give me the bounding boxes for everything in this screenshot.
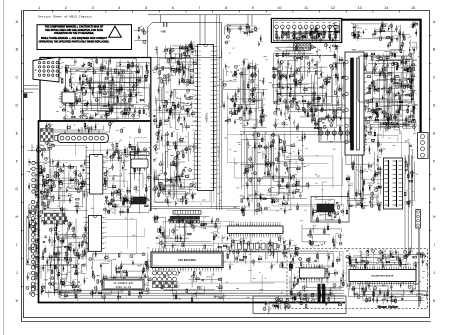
transistor Q301 bbox=[36, 147, 41, 152]
CRT board connector bbox=[294, 43, 312, 50]
audio output components cluster bbox=[89, 250, 152, 302]
AV jack connector J301 bbox=[55, 128, 109, 142]
svg-text:5: 5 bbox=[145, 6, 147, 10]
shield pattern block 2 bbox=[44, 213, 64, 224]
svg-text:A: A bbox=[35, 68, 37, 72]
svg-text:C: C bbox=[433, 76, 436, 80]
scan page edge line bbox=[2, 0, 4, 335]
grid column numbers bbox=[38, 6, 415, 12]
shield outline around IF/PLL bbox=[148, 23, 222, 58]
EEPROM U602 bbox=[300, 264, 326, 282]
bus wires bbox=[60, 45, 411, 298]
svg-text:6: 6 bbox=[172, 6, 174, 10]
svg-text:8: 8 bbox=[225, 6, 227, 10]
jungle IC U201 bbox=[193, 45, 219, 191]
center section divider bold line bbox=[150, 121, 152, 211]
svg-text:H: H bbox=[15, 215, 18, 219]
microcontroller IC U601 bbox=[151, 248, 223, 272]
bottom box parts cluster bbox=[263, 296, 292, 314]
svg-text:I: I bbox=[434, 243, 435, 247]
vertical output heatsink box bbox=[319, 118, 350, 142]
pre-driver parts cluster bbox=[184, 41, 197, 58]
svg-text:TDA8844: TDA8844 bbox=[205, 112, 208, 123]
top middle components cluster bbox=[225, 23, 263, 47]
antenna input wires bbox=[24, 86, 39, 98]
wire channel connector bbox=[173, 211, 201, 215]
power shield outline bbox=[358, 56, 412, 102]
svg-text:7: 7 bbox=[198, 6, 200, 10]
sync section box bbox=[311, 197, 349, 223]
svg-text:OPERATION ON THE TV RECEIVER.: OPERATION ON THE TV RECEIVER. bbox=[54, 32, 94, 35]
left edge parts lower cluster bbox=[26, 200, 42, 295]
video module bbox=[130, 152, 149, 172]
warning notice box with caution triangle bbox=[37, 25, 132, 50]
hookup wire web bbox=[48, 26, 423, 301]
right edge connector P501 bbox=[418, 133, 429, 159]
svg-text:4: 4 bbox=[118, 6, 120, 10]
inner border frame bbox=[23, 10, 429, 317]
deflection components upper cluster bbox=[223, 58, 268, 129]
bottom connector P601 bbox=[153, 271, 178, 288]
filter capacitor row bbox=[319, 129, 350, 141]
svg-text:3: 3 bbox=[92, 6, 94, 10]
svg-text:D: D bbox=[433, 104, 436, 108]
svg-text:T101: T101 bbox=[352, 50, 358, 52]
edge connector P102 bbox=[31, 200, 38, 296]
left side components upper cluster bbox=[27, 140, 62, 203]
drawing number block bbox=[103, 279, 144, 290]
svg-text:C: C bbox=[15, 76, 18, 80]
horizontal drive components cluster bbox=[345, 129, 384, 215]
grid row letters bbox=[15, 20, 436, 303]
video input components cluster bbox=[155, 43, 198, 88]
svg-text:D: D bbox=[15, 104, 18, 108]
IF transformer T101 bbox=[345, 50, 367, 155]
svg-text:2: 2 bbox=[65, 6, 67, 10]
svg-text:CPU 8821CPNG: CPU 8821CPNG bbox=[178, 259, 196, 262]
dashed option region box bbox=[287, 249, 428, 309]
option box parts left cluster bbox=[289, 252, 347, 309]
CPU lower parts cluster bbox=[153, 269, 227, 303]
svg-text:THE COMPONENT MARKED▲ CAUTION: THE COMPONENT MARKED▲ CAUTION TO MAX OF bbox=[45, 26, 104, 29]
IF section components cluster bbox=[61, 56, 150, 121]
audio amp IC U302 bbox=[83, 216, 106, 252]
shield pattern block 1 bbox=[40, 129, 53, 142]
svg-text:−500: −500 bbox=[160, 30, 166, 34]
right side parts cluster bbox=[405, 140, 416, 208]
degaussing parts cluster bbox=[352, 20, 419, 41]
crystal X101 bbox=[160, 22, 167, 34]
chroma components cluster bbox=[153, 86, 196, 132]
svg-text:J: J bbox=[433, 271, 435, 275]
right edge vertical wires bbox=[418, 228, 420, 307]
power supply components cluster bbox=[361, 50, 418, 131]
CRT socket board box bbox=[271, 19, 341, 43]
B+ parts cluster bbox=[387, 22, 417, 53]
tuner/IF section box border bbox=[40, 58, 151, 122]
option interface parts cluster bbox=[302, 223, 344, 248]
svg-text:G: G bbox=[433, 187, 436, 191]
top-left sparse parts cluster bbox=[134, 26, 148, 43]
sync components cluster bbox=[153, 129, 197, 207]
svg-text:H: H bbox=[433, 215, 436, 219]
svg-text:10: 10 bbox=[278, 6, 282, 10]
svg-text:1: 1 bbox=[38, 6, 40, 10]
svg-text:USE WITCH-LINES AND ARE ESSENT: USE WITCH-LINES AND ARE ESSENTIAL FOR SA… bbox=[45, 29, 103, 32]
svg-text:I: I bbox=[16, 243, 17, 247]
bottom sub-board box bbox=[253, 296, 346, 314]
svg-text:13: 13 bbox=[358, 6, 362, 10]
key matrix row bbox=[171, 216, 200, 223]
right connector P502 bbox=[416, 210, 421, 229]
audio IC U301 bbox=[85, 155, 108, 194]
svg-text:09-39SB13-B4Y: 09-39SB13-B4Y bbox=[113, 282, 134, 285]
regulator parts cluster bbox=[366, 102, 418, 132]
AV switch components cluster bbox=[103, 141, 151, 214]
tuner block TU101 bbox=[33, 57, 62, 82]
top-right section bold border bbox=[342, 20, 421, 155]
jumper bars bbox=[318, 284, 325, 303]
svg-text:G: G bbox=[15, 187, 18, 191]
IC U402 nearby parts cluster bbox=[226, 236, 298, 271]
svg-text:OPERATION, THE SPECIFIED PARTS: OPERATION, THE SPECIFIED PARTS ONLY WHEN… bbox=[39, 41, 110, 44]
svg-text:NICAM PROCESSOR: NICAM PROCESSOR bbox=[372, 275, 394, 278]
resistor array RP601 bbox=[238, 243, 277, 249]
CPU peripheral parts cluster bbox=[152, 214, 227, 251]
NICAM IC U801 bbox=[349, 266, 416, 286]
switching transformer T601 bbox=[384, 158, 403, 209]
svg-text:J: J bbox=[16, 271, 18, 275]
svg-text:12: 12 bbox=[331, 6, 335, 10]
row components below tuner box cluster bbox=[43, 121, 140, 135]
reference designator text speckle bbox=[42, 47, 431, 302]
vertical out components cluster bbox=[240, 131, 309, 217]
edge connector P101 bbox=[32, 161, 39, 193]
SAW filter Z101 bbox=[60, 92, 78, 103]
svg-text:WHILE THOSE MARKED ▲ ARE REQUI: WHILE THOSE MARKED ▲ ARE REQUIRED FOR CO… bbox=[41, 37, 108, 40]
snubber parts cluster bbox=[393, 58, 417, 100]
east-west components cluster bbox=[272, 49, 347, 133]
svg-text:15: 15 bbox=[411, 6, 415, 10]
svg-text:9: 9 bbox=[252, 6, 254, 10]
svg-text:14: 14 bbox=[384, 6, 388, 10]
svg-text:Nicam Option: Nicam Option bbox=[378, 305, 399, 309]
svg-text:11: 11 bbox=[304, 6, 308, 10]
top bus wire bbox=[148, 14, 271, 16]
top bus drop wires bbox=[161, 15, 253, 45]
svg-text:Service Sheet of WS13 Chassis: Service Sheet of WS13 Chassis bbox=[38, 15, 92, 19]
sound trap components cluster bbox=[103, 194, 149, 216]
IC U402 bbox=[228, 222, 284, 238]
audio path components cluster bbox=[111, 141, 150, 158]
left-mid component column cluster bbox=[39, 158, 88, 215]
left section bold border bbox=[39, 121, 346, 303]
mains filter parts cluster bbox=[275, 42, 341, 53]
svg-text:2002-12-02: 2002-12-02 bbox=[116, 286, 132, 289]
CRT board inner parts cluster bbox=[276, 25, 339, 43]
nicam upper parts cluster bbox=[346, 247, 429, 269]
IF shield can bbox=[133, 197, 146, 204]
sync box parts cluster bbox=[312, 199, 344, 224]
left column components lower cluster bbox=[41, 214, 90, 301]
nicam lower parts cluster bbox=[347, 281, 428, 304]
